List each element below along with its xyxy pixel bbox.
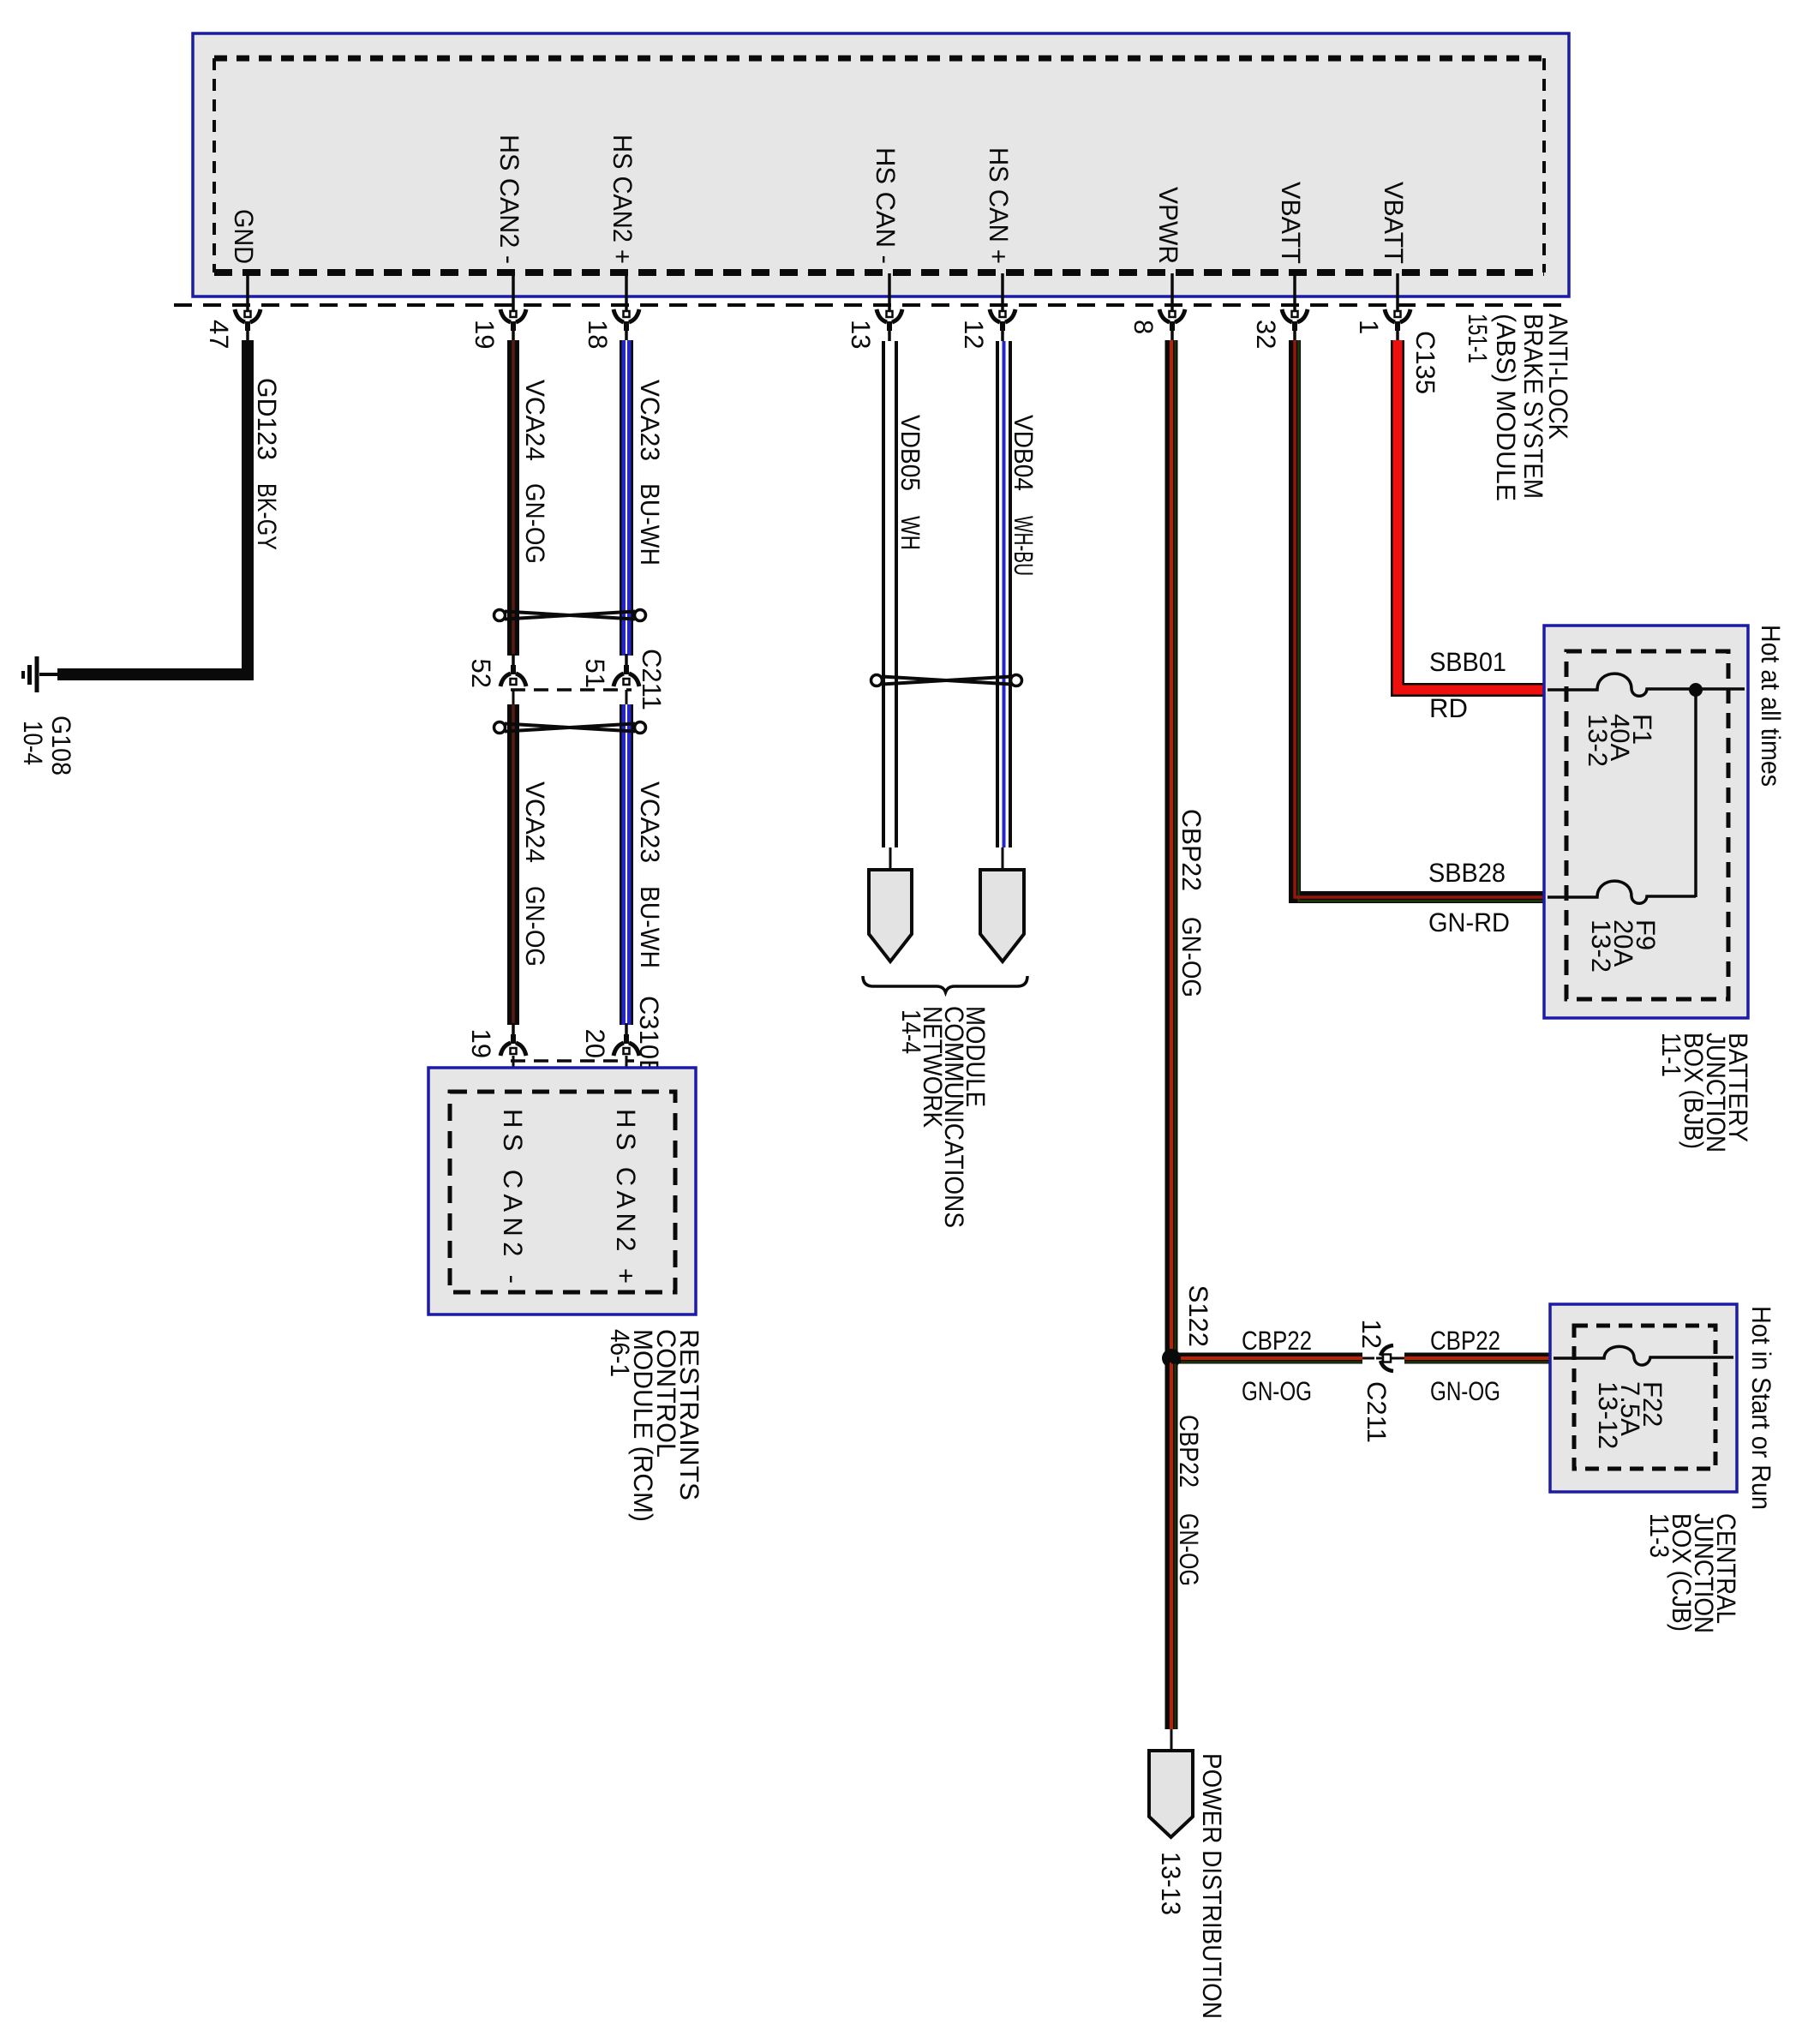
wire VCA23 BU-WH segment 1 (pin 18 to C211 pin 51)	[620, 340, 633, 656]
svg-text:POWER DISTRIBUTION: POWER DISTRIBUTION	[1197, 1753, 1227, 2019]
svg-text:13-13: 13-13	[1156, 1852, 1186, 1915]
svg-text:VDB05: VDB05	[895, 415, 925, 491]
svg-text:GN-OG: GN-OG	[1242, 1376, 1312, 1406]
svg-text:WH-BU: WH-BU	[1009, 516, 1039, 576]
svg-text:18: 18	[583, 320, 613, 349]
svg-text:19: 19	[466, 1029, 496, 1058]
twisted pair crossover (VCA24/VCA23 upper)	[494, 610, 646, 621]
svg-text:12: 12	[959, 320, 989, 349]
svg-text:C310B: C310B	[634, 996, 664, 1077]
off-page arrow (VDB04 to module communications network)	[1002, 847, 1004, 870]
wire VDB05 WH (pin 13)	[882, 341, 898, 847]
fuse F9 20A	[1548, 881, 1696, 903]
svg-text:SBB01: SBB01	[1429, 647, 1506, 677]
connector C211 pin 12 inline symbol	[1362, 1357, 1374, 1360]
svg-text:51: 51	[580, 659, 610, 688]
pin 1 of C135	[1385, 273, 1410, 341]
svg-text:HS CAN +: HS CAN +	[984, 147, 1014, 264]
wire CBP22 GN-OG (S122 to C211 pin 12)	[1171, 1353, 1362, 1364]
fuse label F1 40A 13-2	[1583, 714, 1657, 767]
svg-text:VDB04: VDB04	[1009, 415, 1039, 491]
wire VCA24 GN-OG segment 1 (pin 19 to C211 pin 52)	[507, 340, 519, 656]
svg-text:VBATT: VBATT	[1379, 182, 1409, 264]
svg-text:47: 47	[204, 320, 234, 349]
svg-text:S122: S122	[1183, 1285, 1213, 1347]
ground label G108 10-4	[18, 716, 76, 775]
wire VCA23 BU-WH segment 2 (C211 to RCM pin 20)	[626, 690, 628, 704]
splice S122	[1162, 1349, 1181, 1368]
off-page arrow (VDB05 to module communications network)	[889, 847, 892, 870]
svg-text:CBP22: CBP22	[1174, 1415, 1204, 1488]
module: RESTRAINTS CONTROL MODULE (RCM) box	[428, 1068, 696, 1314]
module: CENTRAL JUNCTION BOX (CJB)	[1550, 1304, 1737, 1492]
svg-text:GN-OG: GN-OG	[1174, 1513, 1204, 1586]
svg-text:C211: C211	[637, 649, 667, 710]
pin 32 of C135	[1282, 273, 1308, 341]
svg-text:GN-RD: GN-RD	[1428, 907, 1510, 937]
connector C310B dashed line	[511, 1059, 634, 1063]
ground G108	[23, 656, 57, 692]
module label BATTERY JUNCTION BOX (BJB) 11-1	[1656, 1033, 1753, 1153]
svg-text:VCA24: VCA24	[520, 380, 550, 461]
svg-text:52: 52	[466, 659, 496, 688]
svg-text:VCA23: VCA23	[635, 380, 665, 461]
wire CBP22 GN-OG (VPWR pin 8 down to splice S122)	[1165, 340, 1178, 1354]
module: BATTERY JUNCTION BOX (BJB)	[1544, 626, 1748, 1018]
svg-text:GN-OG: GN-OG	[1176, 917, 1206, 997]
pin 20 of C310B	[614, 1023, 639, 1056]
svg-text:(ABS) MODULE: (ABS) MODULE	[1491, 314, 1521, 501]
module label CENTRAL JUNCTION BOX (CJB) 11-3	[1644, 1513, 1741, 1633]
pin 47 of C135	[235, 273, 260, 341]
svg-text:13-2: 13-2	[1586, 919, 1616, 973]
pin 19 of C310B	[500, 1023, 526, 1056]
svg-text:VCA23: VCA23	[635, 781, 665, 863]
svg-text:8: 8	[1129, 320, 1158, 334]
svg-text:BU-WH: BU-WH	[635, 483, 665, 566]
svg-text:151-1: 151-1	[1463, 314, 1493, 363]
net label MODULE COMMUNICATIONS NETWORK 14-4	[896, 1006, 991, 1228]
svg-text:GN-OG: GN-OG	[520, 483, 550, 564]
svg-text:13-12: 13-12	[1593, 1381, 1623, 1449]
twisted pair crossover (VDB05/VDB04)	[871, 675, 1022, 686]
svg-text:GN-OG: GN-OG	[520, 886, 550, 967]
svg-text:Hot at all times: Hot at all times	[1756, 625, 1786, 787]
svg-text:32: 32	[1251, 320, 1281, 349]
svg-text:11-3: 11-3	[1644, 1513, 1674, 1558]
wire SBB01 RD (VBATT pin 1 to BJB F1)	[1398, 340, 1544, 690]
brace	[863, 976, 1027, 992]
svg-text:14-4: 14-4	[896, 1009, 926, 1054]
svg-text:BU-WH: BU-WH	[635, 886, 665, 968]
svg-text:G108: G108	[46, 716, 76, 775]
off-page arrow POWER DISTRIBUTION	[1170, 1729, 1173, 1751]
svg-text:19: 19	[470, 320, 500, 349]
fuse label F22 7.5A 13-12	[1593, 1381, 1667, 1449]
fuse label F9 20A 13-2	[1586, 919, 1661, 973]
pin 12 of C135	[990, 273, 1015, 341]
connector C211 inline (pins 52/51)	[511, 688, 632, 692]
junction node on F1 output	[1689, 683, 1703, 697]
wire CBP22 GN-OG (S122 down to power distribution)	[1165, 1362, 1178, 1729]
connector C135 dashed line	[174, 303, 1568, 307]
wire GD123 BK-GY (GND pin 47)	[57, 340, 248, 674]
svg-text:CBP22: CBP22	[1430, 1326, 1500, 1356]
pin 18 of C135	[614, 273, 639, 341]
svg-text:13: 13	[846, 320, 876, 349]
svg-text:VPWR: VPWR	[1153, 187, 1183, 264]
wire VCA24 GN-OG segment 2 (C211 to RCM pin 19)	[512, 690, 515, 704]
fuse F1 40A	[1548, 674, 1745, 696]
svg-text:C211: C211	[1362, 1381, 1392, 1443]
module label: ANTI-LOCK BRAKE SYSTEM (ABS) MODULE 151-1	[1463, 314, 1573, 501]
svg-text:SBB28: SBB28	[1428, 858, 1506, 888]
svg-text:VBATT: VBATT	[1276, 182, 1306, 264]
svg-text:1: 1	[1354, 320, 1384, 334]
svg-text:CBP22: CBP22	[1176, 809, 1206, 891]
wire SBB28 GN-RD (VBATT pin 32 to BJB F9)	[1295, 340, 1544, 897]
svg-text:CBP22: CBP22	[1242, 1326, 1312, 1356]
svg-text:VCA24: VCA24	[520, 781, 550, 863]
svg-text:11-1: 11-1	[1656, 1033, 1686, 1077]
svg-text:12: 12	[1356, 1320, 1386, 1349]
wire (F1 node down to F9 output)	[1694, 690, 1697, 897]
module label RESTRAINTS CONTROL MODULE (RCM) 46-1	[605, 1329, 704, 1522]
svg-text:HS CAN2 +: HS CAN2 +	[611, 1109, 641, 1284]
svg-text:GND: GND	[229, 209, 259, 264]
pin 52 of C211	[500, 654, 526, 686]
pin 13 of C135	[877, 273, 902, 341]
svg-text:HS CAN2 -: HS CAN2 -	[494, 135, 524, 264]
svg-text:HS CAN2 +: HS CAN2 +	[608, 135, 638, 264]
svg-text:C135: C135	[1410, 331, 1440, 394]
svg-text:10-4: 10-4	[18, 721, 48, 765]
svg-text:13-2: 13-2	[1583, 714, 1613, 767]
fuse F22 7.5A	[1554, 1346, 1733, 1365]
svg-text:GN-OG: GN-OG	[1430, 1376, 1500, 1406]
svg-text:BK-GY: BK-GY	[252, 483, 282, 550]
pin 51 of C211	[614, 654, 639, 686]
svg-text:20: 20	[580, 1029, 610, 1058]
wire CBP22 GN-OG (C211 to CJB)	[1404, 1353, 1550, 1364]
twisted pair crossover (VCA24/VCA23 lower)	[494, 722, 646, 734]
svg-text:RD: RD	[1429, 693, 1468, 723]
svg-text:GD123: GD123	[252, 378, 282, 460]
svg-text:BRAKE SYSTEM: BRAKE SYSTEM	[1518, 314, 1548, 499]
svg-text:Hot in Start or Run: Hot in Start or Run	[1746, 1306, 1776, 1510]
pin 19 of C135	[500, 273, 526, 341]
pin 8 of C135	[1159, 273, 1185, 341]
svg-text:WH: WH	[895, 516, 925, 550]
wire VDB04 WH-BU (pin 12)	[996, 341, 1012, 847]
module: ANTI-LOCK BRAKE SYSTEM (ABS) MODULE box	[193, 33, 1569, 296]
svg-text:46-1: 46-1	[605, 1329, 635, 1377]
svg-text:HS CAN -: HS CAN -	[871, 147, 901, 264]
